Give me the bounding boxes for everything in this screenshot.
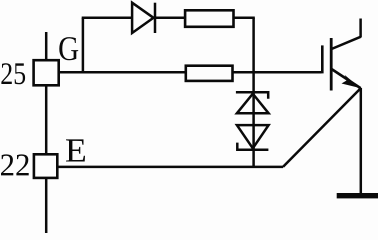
emitter diagonal [332,69,361,88]
wire from diode to resistor R1 [155,17,185,20]
main bar [330,38,333,91]
label 25 [1,63,25,84]
wire top branch horizontal to diode [82,17,132,20]
wire vertical through zener stack down to E line [252,18,255,167]
collector lead [359,19,362,38]
terminal box 25 [34,60,59,85]
gate bar [321,45,324,73]
emitter lead [360,88,363,194]
label E [66,139,85,161]
resistor R2 [186,66,233,81]
zener Z1 [236,92,269,113]
zener Z2 [237,125,269,150]
collector diagonal [332,37,361,49]
resistor R1 [185,10,233,27]
wire G line from box 25 to transistor gate [59,71,322,74]
emitter arrow [342,75,361,88]
ground bar [337,193,378,198]
wire E line from box 22 to diagonal [57,166,283,169]
transistor Q1 [322,19,361,195]
label 22 [1,154,29,175]
wire diagonal from E line up to emitter [283,88,361,167]
terminal box 22 [34,154,57,178]
label G [59,37,78,60]
diode D1 [132,3,155,33]
wire left bus vertical [45,32,48,233]
wire junction vertical up from G line [82,18,85,73]
wire from R1 to top corner [234,17,255,20]
